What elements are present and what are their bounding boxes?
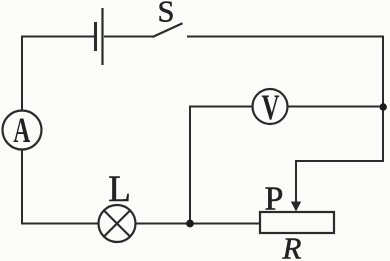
battery B1 <box>96 8 103 65</box>
wire: left vertical from top corner down to ammeter <box>21 36 23 111</box>
rheostat R body <box>260 212 334 233</box>
svg-text:S: S <box>158 0 175 29</box>
wire: right vertical from top corner down to jog <box>382 36 384 162</box>
wire: battery to switch pivot <box>104 36 153 38</box>
wire: vertical drop to wiper arrow <box>295 160 297 203</box>
wire: horizontal jog toward wiper <box>296 160 384 162</box>
wire: voltmeter branch right segment <box>288 106 384 108</box>
svg-text:L: L <box>108 169 131 210</box>
junction node: bottom (lamp/rheostat tap) <box>186 220 194 228</box>
lamp L circle <box>99 205 136 242</box>
voltmeter U2 circle <box>253 89 288 124</box>
junction node: right (voltmeter tap) <box>380 103 387 110</box>
switch S blade <box>153 23 183 37</box>
wiper P arrowhead <box>291 202 301 212</box>
svg-text:A: A <box>13 110 30 150</box>
svg-text:R: R <box>282 231 302 261</box>
wire: left vertical from ammeter down to bottom-left corner <box>21 150 23 225</box>
wire: voltmeter branch left segment <box>190 106 253 108</box>
svg-text:V: V <box>262 87 280 127</box>
wire: bottom-left horizontal to lamp <box>22 223 99 225</box>
ammeter U1 circle <box>3 111 42 150</box>
wire: lamp to rheostat left terminal <box>136 223 261 225</box>
svg-text:P: P <box>265 180 284 217</box>
wire: middle vertical from voltmeter branch down to bottom node <box>189 106 191 224</box>
wire: top-left horizontal from left corner to battery <box>22 36 95 38</box>
lamp L cross <box>104 211 130 237</box>
wire: switch to top-right corner <box>187 36 383 38</box>
